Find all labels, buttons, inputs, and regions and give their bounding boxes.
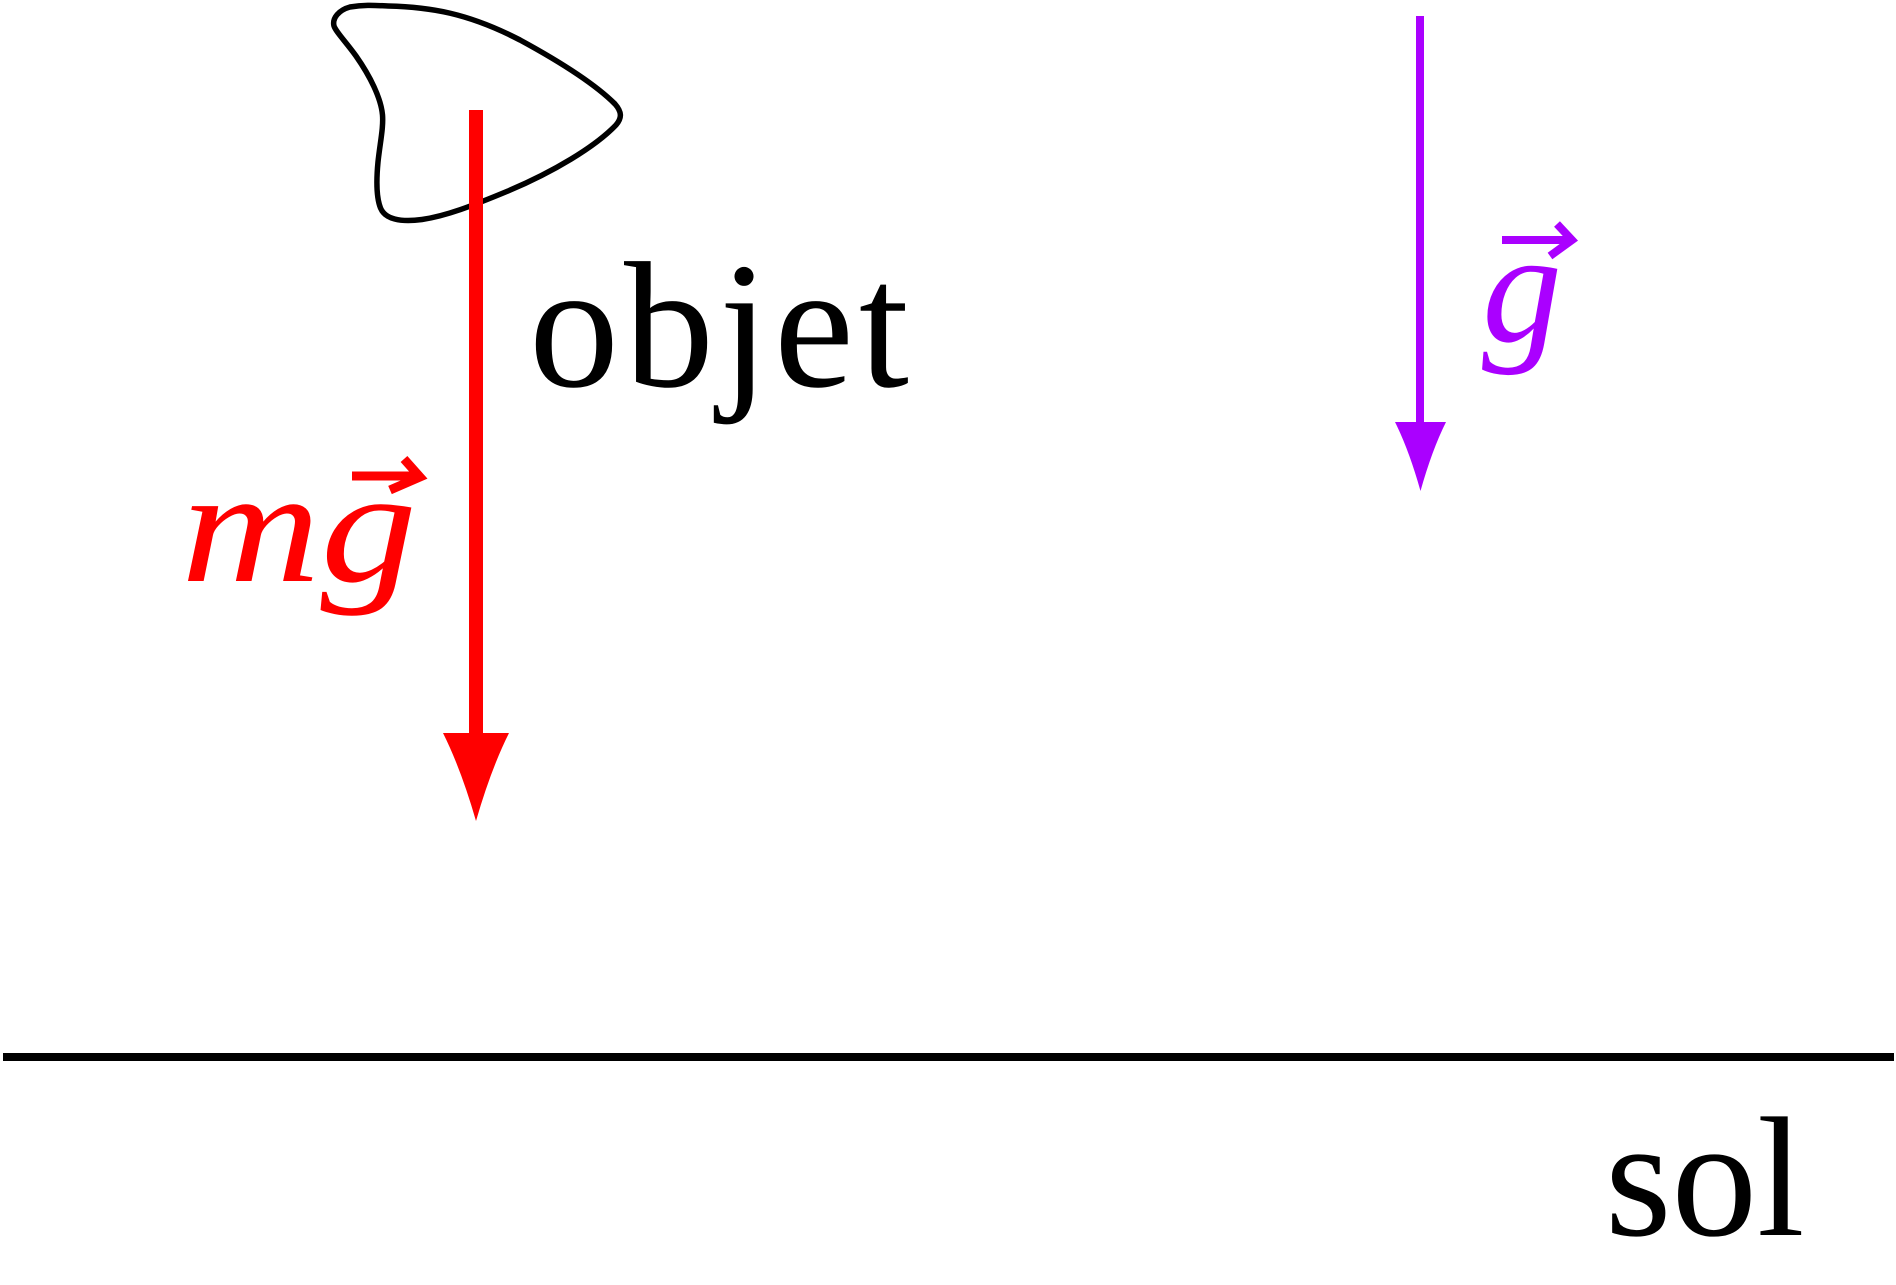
svg-text:objet: objet xyxy=(529,226,914,425)
ground line xyxy=(3,1053,1894,1061)
svg-text:mg: mg xyxy=(181,437,417,617)
red arrowhead xyxy=(443,733,509,821)
svg-text:sol: sol xyxy=(1605,1083,1805,1272)
object blob outline xyxy=(334,5,621,220)
red vector bar over g xyxy=(352,472,416,481)
wire: red weight vector shaft xyxy=(469,110,483,745)
red vector chevron xyxy=(390,459,420,490)
purple vector bar over g xyxy=(1502,236,1567,244)
svg-text:g: g xyxy=(1482,198,1562,376)
purple vector chevron xyxy=(1550,224,1572,256)
purple arrowhead xyxy=(1395,422,1446,491)
purple gravity vector shaft xyxy=(1416,16,1424,430)
